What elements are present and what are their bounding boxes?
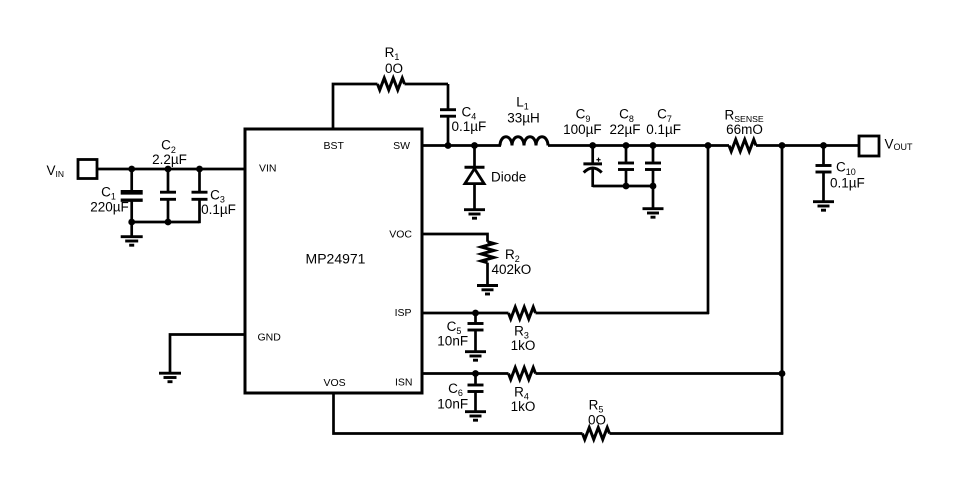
wire ISP pin to R3 [422,312,509,315]
ground output caps [643,186,664,217]
node ISP junction C5 [472,310,479,317]
svg-text:BST: BST [324,140,345,152]
svg-text:10nF: 10nF [437,396,468,411]
node bus junction C2 [165,219,172,226]
svg-text:ISP: ISP [395,307,412,319]
svg-text:0.1µF: 0.1µF [830,175,865,190]
capacitor C8 [609,107,640,187]
wire input rail [97,168,246,171]
capacitor C6 [437,374,483,412]
ground input [121,222,143,245]
resistor R4 [509,368,536,414]
svg-text:Diode: Diode [491,169,526,184]
svg-text:SW: SW [393,140,410,152]
node bus junction C8 [623,183,630,190]
wire VOC pin [422,234,488,242]
wire R3 branch vertical [707,146,710,315]
diode D1 [465,146,527,210]
capacitor C7 [645,107,681,187]
wire R5 to vertical branch [610,432,784,435]
svg-text:10nF: 10nF [437,334,468,349]
wire rail Rsense to Vout [756,144,859,147]
wire GND pin [170,335,245,373]
svg-text:VOUT: VOUT [885,137,914,153]
resistor R2 [481,242,531,285]
terminal VOUT (output square) [859,136,879,156]
terminal VIN (input square) [78,160,97,179]
node bus junction C1 [128,219,135,226]
svg-text:VIN: VIN [47,163,65,179]
svg-text:1kO: 1kO [511,399,536,414]
svg-text:0.1µF: 0.1µF [201,202,236,217]
node SW-C4 junction [445,142,452,149]
svg-text:0O: 0O [385,61,403,76]
svg-text:0.1µF: 0.1µF [452,119,487,134]
capacitor C10 [816,146,865,202]
resistor RSENSE [725,108,764,152]
capacitor C3 [192,169,236,223]
svg-text:VOC: VOC [389,229,412,241]
wire SW rail (IC to L1) [422,144,501,147]
resistor R3 [509,307,536,353]
svg-text:ISN: ISN [395,377,413,389]
svg-text:C10: C10 [836,160,856,177]
svg-text:MP24971: MP24971 [306,251,366,267]
wire R4 to vertical branch [536,372,784,375]
ground C5 [465,352,486,361]
svg-text:2.2µF: 2.2µF [152,152,187,167]
node rail junction C10 [820,142,827,149]
svg-text:100µF: 100µF [563,122,602,137]
IC U1 MP24971 body [245,129,422,393]
node rail junction R3 branch [705,142,712,149]
wire BST to R1 left [333,84,378,130]
ground diode [464,210,485,219]
node rail junction C8 [623,142,630,149]
capacitor C1 [90,169,142,223]
ground R2 [477,286,498,295]
node ISN junction C6 [472,370,479,377]
svg-text:0O: 0O [588,412,606,427]
node SW-diode junction [471,142,478,149]
ground C10 [813,202,834,211]
wire R3 to rail branch [536,312,710,315]
node rail junction C9 [589,142,596,149]
inductor L1 [500,95,548,146]
wire SW rail (L1 to Rsense) [548,144,729,147]
svg-text:33µH: 33µH [507,110,540,125]
svg-text:66mO: 66mO [726,122,763,137]
capacitor C5 [437,313,483,351]
wire ISN pin to R4 [422,372,509,375]
resistor R5 [583,397,610,439]
svg-text:GND: GND [258,332,282,344]
capacitor C4 [440,84,486,146]
node rail junction C7 [650,142,657,149]
svg-text:R1: R1 [385,45,400,62]
capacitor C2 [152,138,187,223]
svg-text:220µF: 220µF [90,199,129,214]
svg-text:L1: L1 [516,95,529,112]
svg-text:VIN: VIN [259,163,277,175]
svg-text:1kO: 1kO [511,338,536,353]
node R4 branch junction [779,370,786,377]
wire R4/VOS branch vertical [781,146,784,435]
ground IC GND [159,373,181,382]
wire R1 right to C4 [405,83,449,86]
wire input ground bus [132,221,200,224]
node rail junction R4 branch [779,142,786,149]
ground C6 [465,412,486,421]
node input rail junction C1 [128,166,135,173]
node input rail junction C3 [196,166,203,173]
svg-text:0.1µF: 0.1µF [646,122,681,137]
svg-text:402kO: 402kO [492,262,532,277]
capacitor C9 (electrolytic) [563,107,602,187]
svg-text:VOS: VOS [324,377,346,389]
wire VOS pin to R5 [334,393,583,434]
node bus junction C7 [650,183,657,190]
wire output cap ground bus [593,185,653,188]
svg-text:22µF: 22µF [609,122,640,137]
resistor R1 [378,45,405,90]
node input rail junction C2 [165,166,172,173]
